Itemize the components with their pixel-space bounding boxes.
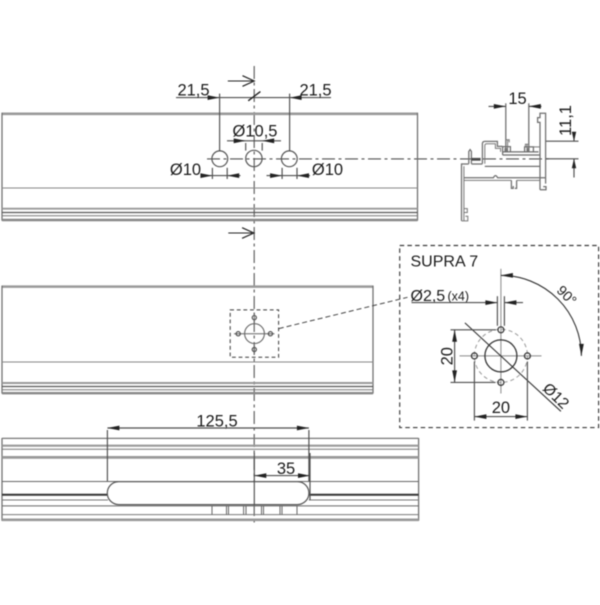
line 505.9 <box>2 505 419 507</box>
svg-text:Ø10,5: Ø10,5 <box>233 123 278 141</box>
small hole bottom <box>252 347 256 351</box>
svg-text:Ø10: Ø10 <box>170 161 201 179</box>
90 degree arc <box>501 275 582 356</box>
small hole top <box>252 316 256 320</box>
left flange inner <box>485 144 501 164</box>
section arrow top <box>228 80 253 82</box>
center hole Ø12 <box>485 340 517 372</box>
left upstand <box>503 147 511 152</box>
tab box verticals <box>211 506 213 515</box>
line 514.6 <box>2 514 419 516</box>
Ø2,5 ext lines <box>496 296 498 326</box>
ext line right circle center <box>289 94 291 152</box>
small hole left <box>471 353 477 359</box>
top view right edge <box>417 113 419 221</box>
bottom view left edge <box>1 438 3 521</box>
dashed detail square <box>230 310 278 357</box>
right tall bar <box>538 113 546 190</box>
main body bottom inner <box>464 179 512 181</box>
middle view groove 1 <box>2 382 373 384</box>
center cross horizontal <box>234 333 275 335</box>
small hole left <box>236 332 240 336</box>
line 500 interrupted <box>2 499 108 501</box>
top view groove line 1 <box>2 208 418 210</box>
connector to bar <box>533 146 540 148</box>
centerline vertical main <box>253 66 255 524</box>
diagonal Ø12 leader <box>465 323 561 411</box>
top view groove line 3 <box>2 215 418 217</box>
middle view left edge <box>1 286 3 394</box>
svg-text:20: 20 <box>439 347 457 365</box>
middle view mid line <box>2 361 373 363</box>
leader to detail <box>279 297 408 328</box>
vertical 20 dim <box>451 329 496 331</box>
middle view bottom edge <box>2 392 373 394</box>
small hole top <box>498 327 504 333</box>
left flange outer <box>482 141 502 163</box>
svg-text:15: 15 <box>508 90 526 108</box>
slash at centerline <box>248 92 260 101</box>
main body bottom outer with bump <box>464 176 546 178</box>
detail horizontal centerline <box>460 355 542 357</box>
line 449.2 <box>2 448 419 450</box>
wall top hooks <box>506 140 509 143</box>
Ø2,5 dim arrows <box>412 302 498 304</box>
arrow at 289.6 left <box>290 95 302 100</box>
section arrow bottom <box>228 232 252 234</box>
detail vertical centerline <box>500 269 502 394</box>
bottom view top edge <box>2 437 419 439</box>
svg-text:20: 20 <box>492 399 510 417</box>
svg-text:21,5: 21,5 <box>177 82 209 100</box>
channel wall inner lines <box>507 140 509 152</box>
svg-text:Ø10: Ø10 <box>312 161 343 179</box>
leg hook 1 <box>464 209 467 213</box>
svg-text:11,1: 11,1 <box>557 105 575 136</box>
top view mid line <box>2 187 418 189</box>
line 519.8 bottom thick <box>2 518 419 521</box>
center hole <box>245 324 265 344</box>
body foot 1 <box>511 180 513 188</box>
small hole right <box>268 332 272 336</box>
leg foot <box>462 216 468 221</box>
left tab <box>469 150 472 164</box>
svg-text:(x4): (x4) <box>448 290 470 304</box>
bottom 20 dim <box>473 362 475 421</box>
line 457.4 thick <box>2 456 419 459</box>
hole middle <box>246 150 262 166</box>
bottom view right edge <box>418 438 420 521</box>
ext line left circle center <box>219 94 221 152</box>
arrow at 219.6 right <box>208 95 220 100</box>
svg-text:SUPRA 7: SUPRA 7 <box>411 254 479 271</box>
dashed bolt circle <box>474 329 527 382</box>
dim 11,1 <box>557 105 575 136</box>
line 481.5 <box>2 481 419 483</box>
svg-text:21,5: 21,5 <box>299 82 331 100</box>
hole left <box>212 151 228 167</box>
small hole right <box>524 353 530 359</box>
top view top edge <box>2 112 418 115</box>
small hole bottom <box>498 379 504 385</box>
line 494.7 dark interrupted <box>2 494 108 496</box>
top view bottom edge <box>2 219 418 221</box>
centerline horizontal top view <box>207 158 551 160</box>
middle view right edge <box>372 286 374 394</box>
Ø12 text <box>539 380 572 413</box>
top view left edge <box>1 113 3 221</box>
slot <box>107 482 309 505</box>
dashed detail border <box>400 246 599 428</box>
top view groove line 2 <box>2 212 418 214</box>
right upstand <box>525 147 534 152</box>
vertical ticks through small holes <box>253 313 255 322</box>
line 445.7 <box>2 445 419 447</box>
middle view groove 2 <box>2 386 373 388</box>
ext/wall line left of 15 channel <box>505 103 507 152</box>
left leg <box>461 163 463 221</box>
hole right <box>281 151 297 167</box>
ext/wall line right of 15 channel <box>528 103 530 152</box>
90 text <box>554 282 580 308</box>
dim 21,5 line <box>176 97 331 99</box>
middle view groove 3 <box>2 389 373 391</box>
main body top edges <box>462 163 469 165</box>
middle view top edge <box>2 285 373 288</box>
glazing platform <box>503 151 539 153</box>
thick link at centerline <box>471 158 480 161</box>
